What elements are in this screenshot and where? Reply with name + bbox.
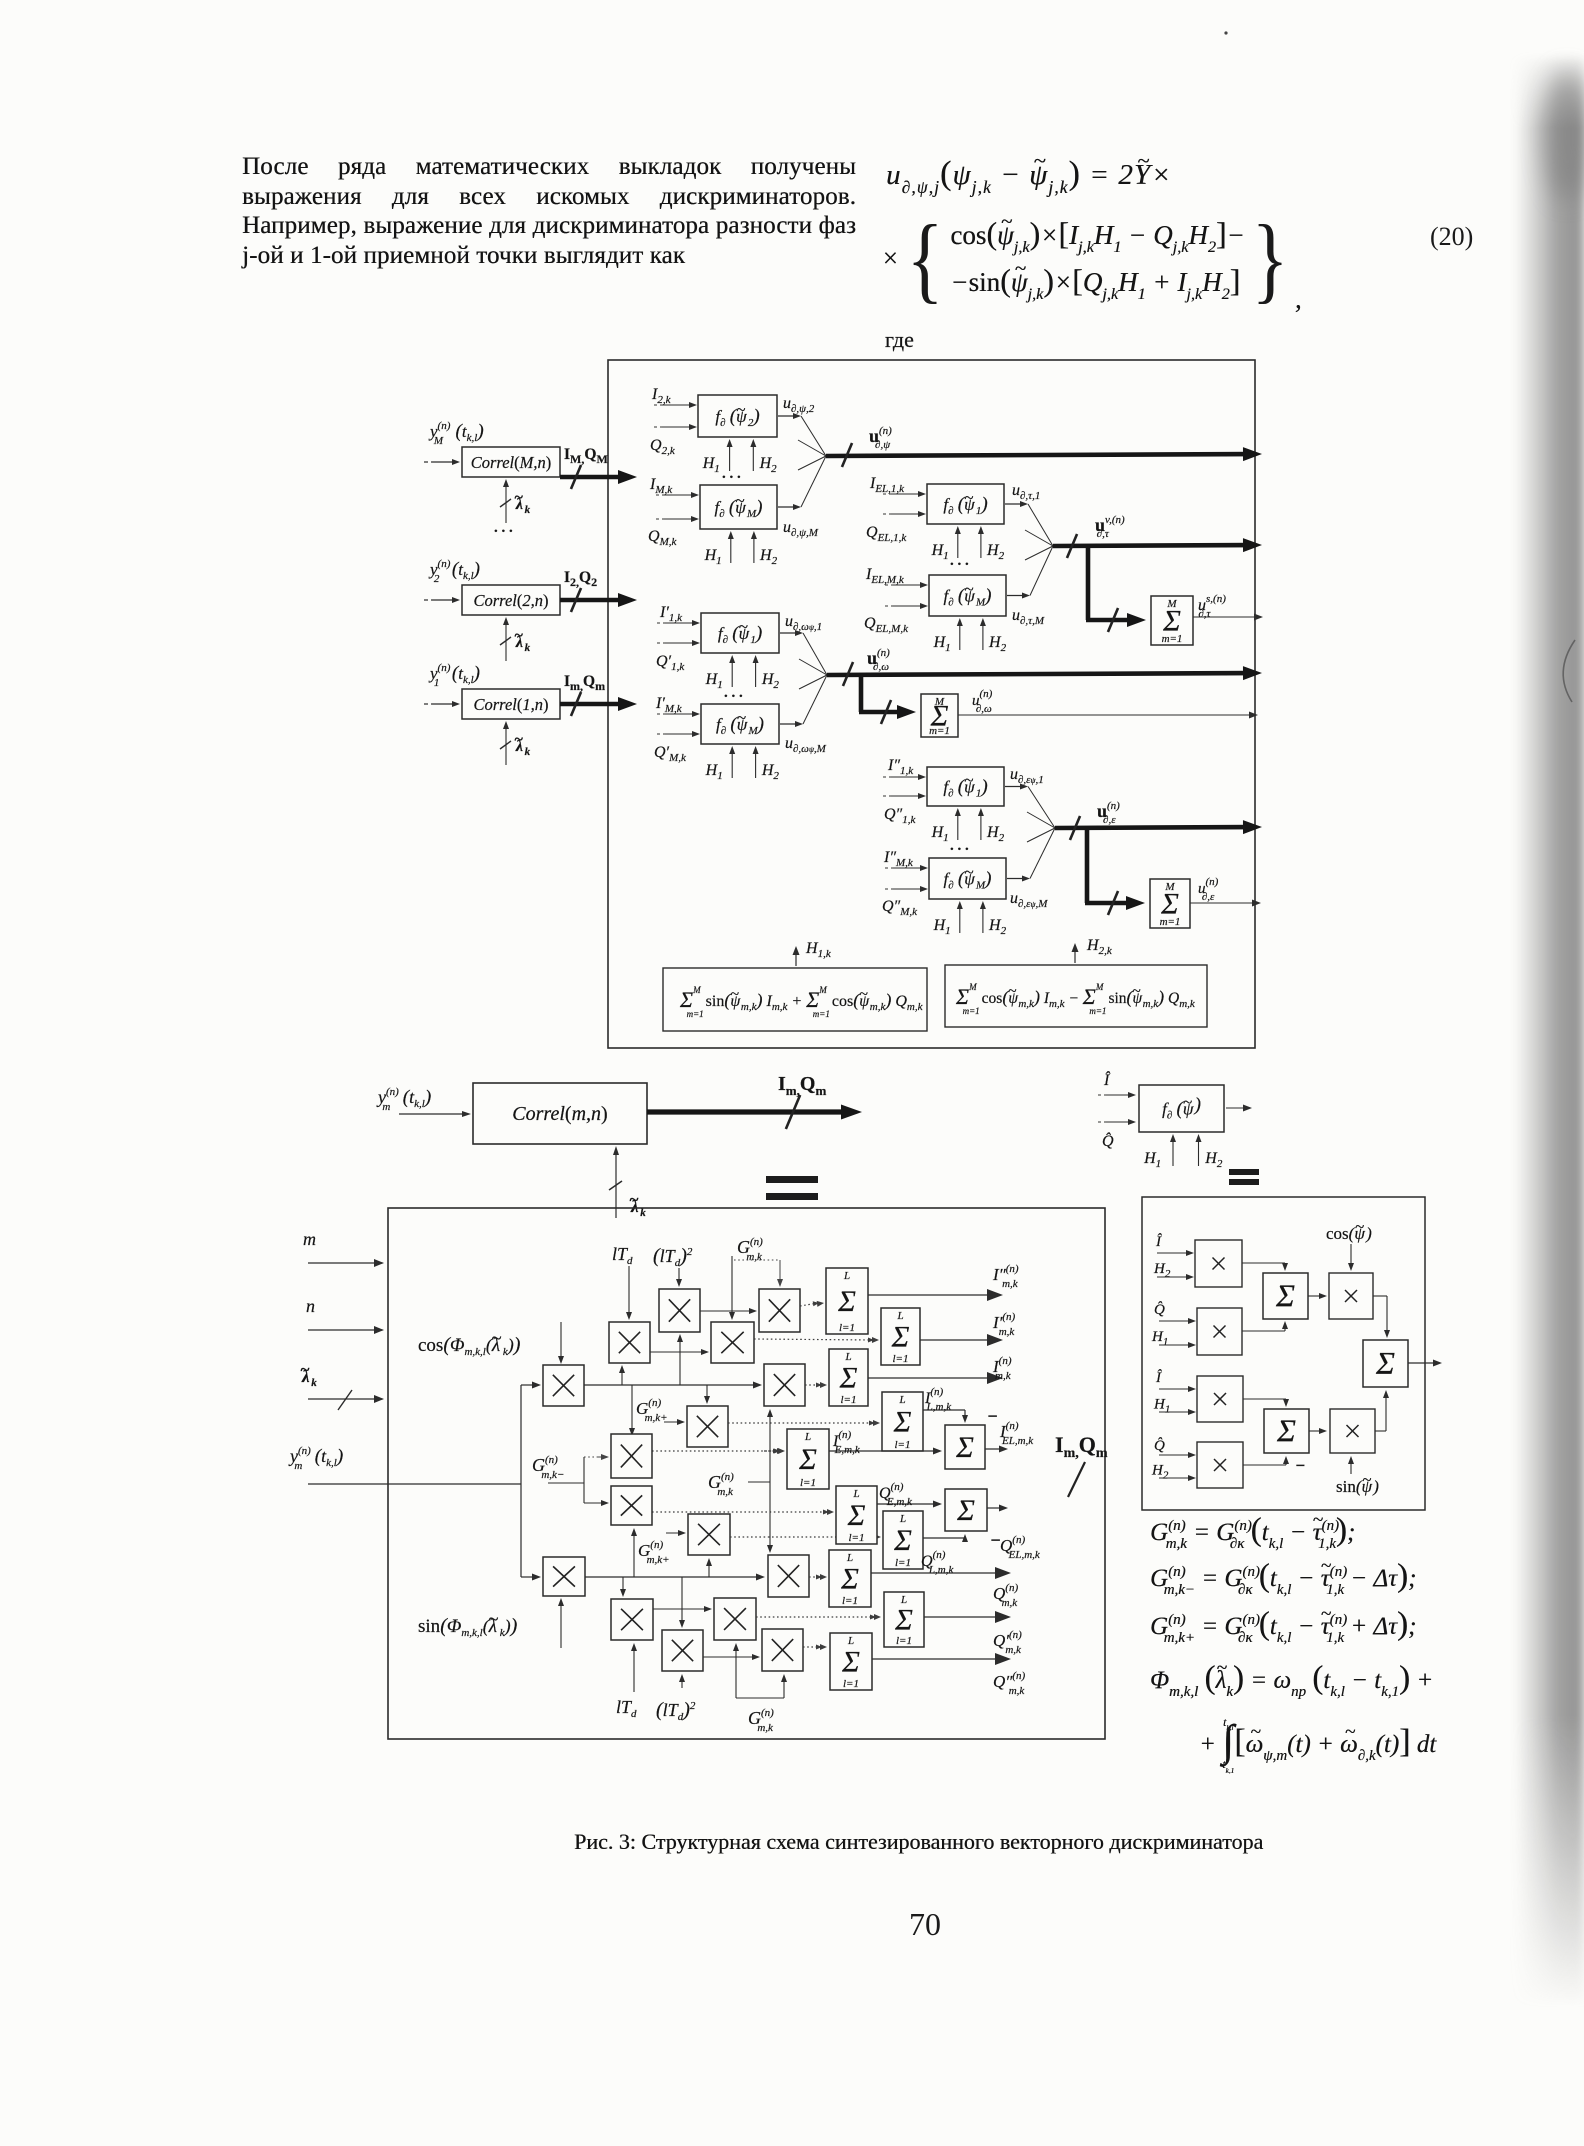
wire xMid to Sum3 dotted: [805, 1384, 821, 1386]
svg-text:H2​: H2​: [761, 671, 780, 691]
H1 H2 inputs of G1 box1: [704, 531, 778, 567]
block H1k formula: [663, 968, 927, 1031]
svg-text:H1,k​: H1,k​: [805, 940, 832, 960]
svg-text:H2​: H2​: [759, 547, 778, 567]
wire sin label arrow: [560, 1603, 562, 1648]
wire f_d mid out: [1226, 1107, 1247, 1109]
svg-text:IM,​QM: IM,​QM: [564, 446, 608, 466]
block SumQ: [829, 1550, 871, 1607]
svg-text:L: L: [899, 1513, 906, 1525]
block xH: [1330, 1409, 1375, 1453]
svg-text:L: L: [844, 1351, 851, 1363]
wire sin into xH: [1350, 1461, 1352, 1474]
wire y_m junction vertical: [520, 1385, 522, 1577]
wire G mid elbow: [748, 1409, 773, 1553]
svg-text:u(n)∂,ω​: u(n)∂,ω​: [972, 688, 993, 715]
wire G+ label arrow: [664, 1421, 680, 1423]
block xSinG2 mult: [762, 1629, 803, 1671]
svg-text:H1​: H1​: [705, 762, 723, 782]
svg-text:u(n)∂,ε: u(n)∂,ε: [1097, 800, 1120, 826]
svg-text:y(n)m​(tk,l​): y(n)m​(tk,l​): [288, 1445, 343, 1472]
block SumQEL: [945, 1489, 987, 1531]
top diagram frame: [608, 360, 1255, 1048]
wire xB to SumC: [1242, 1321, 1288, 1331]
wire G bottom connector: [733, 1643, 787, 1698]
wire into sin mult: [521, 1576, 536, 1578]
wire xG2 to SumF2: [1243, 1456, 1289, 1465]
wire lTd2 mult out: [700, 1310, 752, 1312]
output arrow of G4 box1: [1007, 878, 1025, 880]
fan wire G3 box1: [803, 675, 827, 724]
svg-text:M: M: [1164, 881, 1175, 893]
svg-text:Q″M,k​: Q″M,k​: [882, 898, 918, 918]
svg-text:QEL,M,k​: QEL,M,k​: [864, 615, 909, 635]
block H2k formula: [945, 965, 1207, 1027]
svg-text:H2​: H2​: [986, 824, 1005, 844]
svg-text:H2​: H2​: [986, 542, 1005, 562]
H1 H2 inputs of G3 box1: [705, 746, 780, 782]
lambda_k input mid: [609, 1146, 646, 1219]
fan wire G2 box1: [1030, 546, 1053, 596]
fan wire G1 box0: [801, 416, 826, 456]
svg-text:. . .: . . .: [950, 553, 969, 569]
wire xGplus sin to SumQL dotted: [730, 1536, 875, 1538]
wire SumQ out: [871, 1572, 1001, 1574]
svg-text:I′1,k​: I′1,k​: [659, 604, 683, 624]
figure caption: [574, 1829, 1263, 1855]
equation number (20): [1430, 222, 1473, 252]
block f_d(psi_M) G3: [701, 704, 779, 744]
fan wire G4 box0: [1028, 787, 1055, 829]
block xMid mult: [764, 1364, 805, 1406]
wire lTd2 bottom arrow: [681, 1679, 683, 1688]
wire y_m long line: [308, 1483, 521, 1485]
wire xSin2 to SumQ' dotted: [756, 1616, 875, 1618]
wire Qhat into f_d: [1098, 1119, 1136, 1125]
wire Sum4 out elbow: [923, 1410, 968, 1423]
svg-text:. . .: . . .: [494, 520, 513, 536]
svg-text:λ~​k​: λ~​k​: [629, 1190, 646, 1219]
bus u_d,eps_psi: [1055, 816, 1262, 840]
block Sum1 (I''): [826, 1268, 868, 1334]
wire xSinG2 to SumQ'' dotted: [803, 1646, 821, 1648]
svg-text:u∂,ψ,2​: u∂,ψ,2​: [783, 395, 815, 415]
wire SumQ' out: [924, 1616, 1001, 1618]
wire Q_EL1k into G2 box0: [883, 511, 926, 517]
bus I,Q from Correl(m,n): [560, 692, 637, 716]
wire riser to xg4: [633, 1533, 635, 1577]
svg-text:u∂,τ,M​: u∂,τ,M​: [1012, 607, 1045, 627]
svg-text:IEL,1,k​: IEL,1,k​: [869, 475, 905, 495]
wire SumQL out elbow: [923, 1534, 968, 1542]
svg-text:Σ: Σ: [1276, 1413, 1296, 1449]
block Sum eps: [1150, 879, 1190, 928]
block lTd2 mult: [659, 1289, 700, 1332]
wire SumE out: [829, 1450, 937, 1452]
wire Q''_1k into G4 box0: [883, 793, 926, 799]
wire SumC to xD: [1308, 1295, 1322, 1297]
svg-text:λ~​k​: λ~​k​: [300, 1360, 317, 1389]
block xSin2 mult: [714, 1598, 756, 1640]
svg-text:Σ: Σ: [798, 1443, 817, 1476]
svg-text:Σ: Σ: [955, 1431, 974, 1464]
svg-text:Î: Î: [1155, 1233, 1162, 1250]
svg-text:−: −: [987, 1406, 998, 1426]
svg-text:IEL,M,k​: IEL,M,k​: [865, 566, 905, 586]
block xTop mult: [759, 1289, 800, 1332]
block f_d(psi_1) G3: [701, 613, 779, 653]
svg-text:L: L: [900, 1594, 907, 1606]
svg-text:L: L: [898, 1394, 905, 1406]
svg-text:QM,k​: QM,k​: [648, 528, 677, 548]
block Correl(M,n): [462, 447, 560, 477]
svg-text:l=1: l=1: [800, 1477, 816, 1489]
block f_d(psi_1) G2: [927, 484, 1004, 524]
svg-text:G(n)m,k+​: G(n)m,k+​: [638, 1539, 670, 1566]
block SumQ'': [830, 1633, 872, 1690]
wire lambda_k input: [308, 1390, 384, 1410]
svg-text:−: −: [990, 1530, 1001, 1550]
output arrow of G2 box1: [1007, 595, 1025, 597]
block SumQE: [836, 1486, 877, 1544]
wire Sum1 out: [868, 1294, 993, 1296]
svg-text:L: L: [843, 1270, 850, 1282]
output arrow of G1 box1: [778, 506, 796, 508]
svg-text:cos(Φm,k,l​(λ~​k​)): cos(Φm,k,l​(λ~​k​)): [418, 1328, 521, 1358]
wire G top dotted elbow: [734, 1260, 783, 1287]
wire sum eps out: [1190, 902, 1256, 904]
svg-text:Σ: Σ: [840, 1562, 859, 1595]
wire Q'_1k into G3 box0: [657, 640, 700, 646]
wire SumQE out: [877, 1503, 937, 1505]
svg-text:l=1: l=1: [896, 1635, 912, 1647]
svg-text:Correl(m,n): Correl(m,n): [512, 1103, 607, 1125]
svg-text:u(n)∂,ω: u(n)∂,ω: [867, 647, 890, 673]
wire G- to xg3 dotted: [584, 1454, 609, 1460]
svg-text:l=1: l=1: [841, 1394, 857, 1406]
wire G top solid: [731, 1256, 733, 1315]
bus I,Q from Correl(M,n): [560, 465, 637, 489]
wire xH to SumE2: [1375, 1390, 1389, 1431]
svg-text:L: L: [846, 1552, 853, 1564]
svg-text:Q″1,k​: Q″1,k​: [884, 806, 916, 826]
svg-text:H1​: H1​: [933, 634, 951, 654]
svg-text:Im,​Qm: Im,​Qm: [564, 673, 605, 693]
block xA: [1195, 1240, 1242, 1287]
wire cos into xD: [1350, 1244, 1352, 1266]
svg-text:I″(n)m,k​: I″(n)m,k​: [992, 1263, 1019, 1290]
svg-text:Q̂: Q̂: [1154, 1301, 1165, 1318]
svg-text:l=1: l=1: [895, 1557, 911, 1569]
fan wire G3 box0: [803, 633, 827, 675]
H2k output arrow: [1074, 948, 1076, 963]
svg-text:Î: Î: [1155, 1369, 1162, 1386]
wire SumF2 to xH: [1309, 1430, 1322, 1432]
svg-text:Q2,k​: Q2,k​: [650, 437, 676, 457]
svg-text:QEL,1,k​: QEL,1,k​: [866, 524, 907, 544]
svg-text:M: M: [934, 696, 945, 708]
wire drop to lTd2 sin: [681, 1577, 683, 1623]
svg-text:u∂,ε​ψ​,M​: u∂,ε​ψ​,M​: [1010, 890, 1048, 910]
svg-text:Q′M,k​: Q′M,k​: [654, 744, 687, 764]
bus branch to sum omega: [859, 675, 916, 724]
svg-text:Q′(n)m,k​: Q′(n)m,k​: [993, 1629, 1022, 1656]
wire Q_ELMk into G2 box1: [885, 603, 928, 609]
svg-text:m=1: m=1: [1160, 916, 1181, 928]
block xF: [1197, 1376, 1243, 1422]
block xg4 mult: [611, 1486, 652, 1525]
svg-text:Q(n)L,m,k​: Q(n)L,m,k​: [921, 1549, 954, 1576]
fan stub wires G2: [1025, 530, 1053, 560]
wire into Correl(m,n): [399, 1113, 466, 1115]
svg-text:Q′1,k​: Q′1,k​: [656, 653, 685, 673]
wire xGplus to Sum4 dotted: [728, 1422, 874, 1424]
svg-text:. . .: . . .: [724, 685, 743, 701]
svg-text:l=1: l=1: [893, 1353, 909, 1365]
svg-text:H1​: H1​: [931, 542, 949, 562]
svg-text:L: L: [896, 1310, 903, 1322]
output arrow of G2 box0: [1005, 503, 1023, 505]
wire SumE dotted input: [764, 1450, 778, 1452]
paragraph russian text: [242, 152, 856, 270]
svg-text:G(n)m,k​: G(n)m,k​: [748, 1707, 774, 1734]
svg-text:I(n)E,m,k​: I(n)E,m,k​: [832, 1429, 861, 1456]
svg-text:l=1: l=1: [842, 1595, 858, 1607]
wire SumEL out: [985, 1448, 1003, 1450]
wire SumE2 out: [1408, 1362, 1437, 1364]
wire Q_Mk into G1 box1: [656, 516, 699, 522]
svg-text:l=1: l=1: [895, 1439, 911, 1451]
svg-text:u∂,τ,1​: u∂,τ,1​: [1012, 482, 1040, 502]
block SumQ': [884, 1592, 924, 1647]
fan stub wires G3: [799, 659, 827, 689]
svg-text:Σ: Σ: [893, 1524, 912, 1557]
svg-text:H2​: H2​: [1151, 1463, 1169, 1482]
bus I_m Q_m mid: [647, 1095, 862, 1129]
svg-text:Q″(n)m,k​: Q″(n)m,k​: [993, 1670, 1026, 1697]
wire riser to xgplus sin: [708, 1563, 710, 1577]
svg-text:lTd​: lTd​: [616, 1697, 637, 1720]
block sin mult: [543, 1557, 585, 1596]
wire SumQEL out: [987, 1507, 1003, 1509]
lambda_k input of Correl(2,n): [500, 617, 531, 661]
block f_d(psi_2) G1: [698, 395, 777, 437]
fan wire G4 box1: [1030, 828, 1055, 879]
fd internals frame: [1142, 1197, 1425, 1510]
equals sign right: [1229, 1169, 1259, 1185]
page curl arc mark: [1563, 640, 1575, 702]
svg-text:(lTd​)2​: (lTd​)2​: [656, 1699, 696, 1723]
svg-text:λ~​k​: λ~​k​: [514, 627, 531, 654]
block SumE: [787, 1429, 829, 1489]
wire xD to SumE2: [1373, 1296, 1390, 1338]
svg-text:us,(n)∂,τ​: us,(n)∂,τ​: [1198, 593, 1226, 620]
block Correl(1,n): [462, 689, 560, 719]
wire xg4 to SumQE dotted: [652, 1511, 828, 1513]
svg-text:Q(n)EL,m,k​: Q(n)EL,m,k​: [1000, 1534, 1041, 1561]
block SumC: [1263, 1273, 1308, 1319]
svg-text:Q(n)m,k​: Q(n)m,k​: [993, 1582, 1018, 1609]
fan wire G1 box1: [801, 456, 826, 507]
svg-text:I″1,k​: I″1,k​: [887, 757, 914, 777]
wire into Correl(1,n): [424, 701, 460, 707]
block f_d(psi_M) G4: [929, 858, 1006, 899]
wire Sum3 out: [868, 1377, 993, 1379]
bus u_d,omega_psi: [827, 662, 1262, 686]
svg-text:Correl(2,n): Correl(2,n): [473, 591, 548, 610]
svg-text:Σ: Σ: [1275, 1278, 1295, 1314]
svg-text:H1​: H1​: [702, 455, 720, 475]
bus u_d,psi: [826, 443, 1262, 467]
svg-text:sin(Φm,k,l​(λ~​k​)): sin(Φm,k,l​(λ~​k​)): [418, 1609, 518, 1639]
svg-text:H2​: H2​: [761, 762, 780, 782]
wire Q_2k into G1 box0: [654, 424, 697, 430]
svg-text:u∂,ψ,M​: u∂,ψ,M​: [783, 519, 819, 539]
svg-text:где: где: [885, 327, 914, 352]
svg-text:H1​: H1​: [1153, 1397, 1170, 1416]
bus branch to sum eps: [1085, 828, 1145, 915]
svg-text:m: m: [303, 1229, 316, 1249]
svg-text:m=1: m=1: [1162, 633, 1183, 645]
svg-text:H2​: H2​: [988, 634, 1007, 654]
block SumF2: [1264, 1409, 1309, 1453]
block xGplus mult: [687, 1406, 728, 1447]
svg-text:Correl(1,n): Correl(1,n): [473, 695, 548, 714]
svg-text:λ~​k​: λ~​k​: [514, 731, 531, 758]
wire sum omega out: [958, 714, 1253, 716]
wire xA to SumC: [1242, 1263, 1288, 1271]
svg-text:y(n)M​(tk,l​): y(n)M​(tk,l​): [428, 420, 484, 447]
svg-text:I2,​Q2: I2,​Q2: [564, 569, 597, 589]
svg-text:l=1: l=1: [849, 1532, 865, 1544]
svg-text:l=1: l=1: [843, 1678, 859, 1690]
wire into Correl(2,n): [424, 597, 460, 603]
svg-text:Im,​Qm: Im,​Qm: [778, 1073, 826, 1098]
wire Ihat into f_d: [1098, 1092, 1136, 1098]
block cos mult: [543, 1365, 584, 1406]
wire lTd2 top arrow: [678, 1268, 680, 1282]
wire cos label arrow: [560, 1322, 562, 1359]
svg-text:l=1: l=1: [839, 1322, 855, 1334]
wire riser to lTd2 mult: [679, 1339, 681, 1385]
svg-text:Σ: Σ: [847, 1499, 866, 1532]
block xB: [1197, 1308, 1242, 1355]
wire lTd mult out: [650, 1351, 704, 1353]
svg-text:L: L: [852, 1488, 859, 1500]
equals sign left: [766, 1176, 818, 1200]
wire Q''_Mk into G4 box1: [885, 886, 928, 892]
svg-text:y(n)1​(tk,l​): y(n)1​(tk,l​): [428, 662, 480, 689]
svg-text:H1​: H1​: [933, 917, 951, 937]
bus branch to sum tau: [1086, 546, 1146, 632]
svg-text:. . .: . . .: [722, 466, 741, 482]
svg-text:Q̂: Q̂: [1154, 1437, 1165, 1454]
svg-text:H1​: H1​: [704, 547, 722, 567]
wire I'_Mk into G3 box1: [657, 711, 700, 717]
svg-text:(lTd​)2​: (lTd​)2​: [653, 1245, 693, 1269]
svg-text:Σ: Σ: [839, 1361, 858, 1394]
page number: [909, 1906, 941, 1943]
svg-text:G(n)m,k+​: G(n)m,k+​: [636, 1397, 668, 1424]
wire riser to lTd mult: [621, 1370, 623, 1385]
svg-text:u∂,ω​ψ​,M​: u∂,ω​ψ​,M​: [785, 735, 827, 755]
svg-text:G(n)m,k​: G(n)m,k​: [737, 1236, 763, 1263]
wire I_ELMk into G2 box1: [885, 582, 928, 588]
svg-text:y(n)m​(tk,l​): y(n)m​(tk,l​): [376, 1086, 431, 1113]
correl internals frame: [388, 1208, 1105, 1739]
svg-text:I′M,k​: I′M,k​: [655, 695, 683, 715]
lambda_k input of Correl(1,n): [500, 721, 531, 765]
wire m input: [308, 1262, 378, 1264]
svg-text:Σ: Σ: [891, 1320, 910, 1353]
H1 H2 inputs of G4 box0: [931, 808, 1005, 844]
block xD: [1329, 1273, 1373, 1319]
block xSinG mult: [768, 1555, 809, 1597]
svg-text:Î: Î: [1103, 1070, 1111, 1089]
block f_d(psi_M) G1: [700, 485, 777, 529]
block Sum tau: [1151, 596, 1193, 645]
bus I,Q from Correl(2,n): [560, 588, 637, 612]
svg-text:I″M,k​: I″M,k​: [883, 849, 914, 869]
svg-text:I′(n)m,k​: I′(n)m,k​: [992, 1311, 1016, 1338]
svg-text:u∂,ω​ψ​,1​: u∂,ω​ψ​,1​: [785, 613, 822, 633]
svg-text:I2,k​: I2,k​: [651, 386, 672, 406]
svg-text:I(n)L,m,k​: I(n)L,m,k​: [924, 1386, 952, 1413]
svg-text:I(n)m,k​: I(n)m,k​: [992, 1355, 1012, 1382]
svg-text:Σ: Σ: [893, 1405, 912, 1438]
H1 H2 inputs of G3 box0: [705, 655, 780, 691]
H1 H2 inputs of G4 box1: [933, 901, 1007, 937]
block xGplus sin mult: [688, 1514, 730, 1555]
svg-text:Σ: Σ: [837, 1285, 856, 1318]
equation 20 line 1: [886, 155, 1172, 195]
wire into cos mult: [521, 1384, 536, 1386]
svg-text:Im,​Qm: Im,​Qm: [1055, 1432, 1108, 1461]
block SumE2: [1363, 1340, 1408, 1387]
svg-text:M: M: [1166, 598, 1177, 610]
equation 20 braces block: [880, 202, 1303, 315]
svg-text:y(n)2​(tk,l​): y(n)2​(tk,l​): [428, 558, 480, 585]
block xG2: [1197, 1442, 1243, 1488]
wire drop to xgplus: [706, 1385, 708, 1399]
wire I'_1k into G3 box0: [657, 620, 700, 626]
wire xSinG to SumQ dotted: [809, 1576, 821, 1578]
wire lTd top arrow: [628, 1266, 630, 1315]
svg-text:−: −: [1295, 1456, 1305, 1475]
block lTd mult: [609, 1322, 650, 1363]
fan wire G2 box0: [1028, 504, 1053, 546]
svg-text:m=1: m=1: [929, 725, 950, 737]
wire sin main: [585, 1576, 760, 1578]
svg-text:u(n)∂,ε​: u(n)∂,ε​: [1198, 876, 1219, 903]
svg-text:H1​: H1​: [1143, 1150, 1161, 1170]
page shadow right edge: [1514, 55, 1584, 2005]
ink speck top: [1224, 31, 1227, 34]
block f_d(psi) mid: [1139, 1085, 1224, 1132]
output arrow of G4 box0: [1005, 786, 1023, 788]
block Sum3 (I): [829, 1349, 868, 1406]
wire into Correl(M,n): [424, 459, 460, 465]
svg-text:lTd​: lTd​: [612, 1244, 633, 1267]
svg-text:Q̂: Q̂: [1102, 1131, 1114, 1150]
wire I_EL1k into G2 box0: [883, 491, 926, 497]
H1 H2 inputs of G2 box0: [931, 526, 1005, 562]
block Sum omega: [921, 694, 958, 737]
svg-text:H1​: H1​: [705, 671, 723, 691]
block f_d(psi_M) G2: [929, 575, 1006, 616]
block xg3 mult: [611, 1434, 652, 1478]
wire n input: [308, 1329, 378, 1331]
